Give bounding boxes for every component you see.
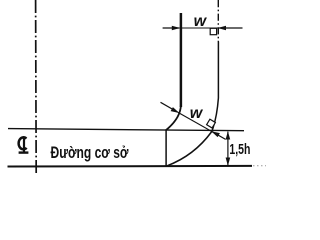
baseline (top horizontal line): [8, 129, 244, 131]
svg-text:w: w: [190, 105, 204, 122]
top dimension line w: [163, 27, 180, 29]
1,5h bottom arrowhead: [226, 158, 231, 166]
diagonal dimension upper arrowhead: [171, 107, 180, 113]
svg-text:1,5h: 1,5h: [229, 141, 250, 158]
left vertical centerline (dash-dot): [35, 0, 38, 175]
top dimension right arrowhead: [218, 26, 226, 31]
svg-text:Đường cơ sở: Đường cơ sở: [51, 143, 130, 162]
stroke left edge curve: [166, 105, 181, 131]
stroke right edge (solid line + tail arc): [167, 42, 219, 166]
stroke left edge thick vertical: [180, 13, 183, 107]
bottom line dotted continuation: [253, 165, 266, 167]
diagonal dimension lower arrowhead: [211, 131, 220, 137]
vertical dimension 1,5h: [227, 132, 229, 166]
centre line symbol: [19, 137, 29, 153]
bottom limit line: [8, 165, 253, 168]
top dimension left arrowhead: [172, 26, 180, 31]
diagonal square symbol: [207, 119, 216, 128]
stroke terminal (vertical cut): [165, 130, 167, 166]
top square symbol: [210, 28, 216, 34]
svg-text:w: w: [194, 13, 208, 30]
1,5h top arrowhead: [226, 131, 231, 139]
stroke right edge centerline extension (dash-dot top): [217, 0, 219, 42]
diagonal dimension line w: [161, 102, 178, 112]
